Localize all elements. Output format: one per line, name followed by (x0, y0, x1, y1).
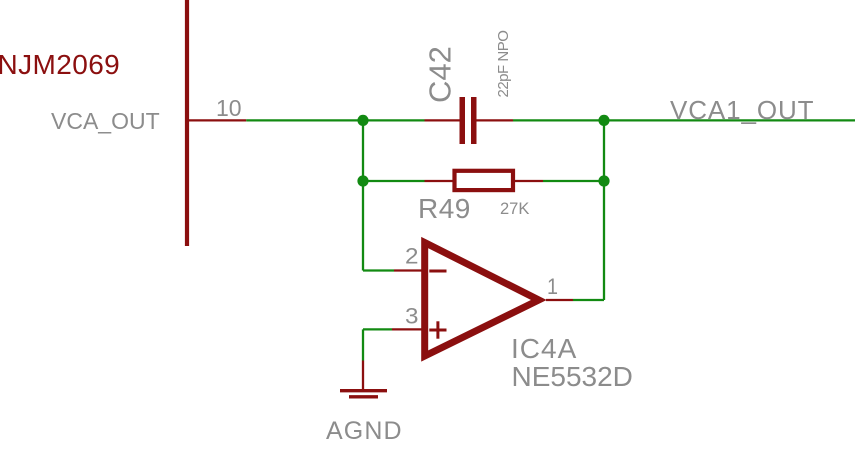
svg-text:27K: 27K (500, 200, 529, 218)
wire: pin 3 down to ground (362, 329, 364, 360)
svg-text:1: 1 (547, 274, 558, 299)
svg-text:R49: R49 (418, 193, 471, 224)
pin 1 output lead (red) (546, 299, 573, 301)
op-amp plus marker vertical (436, 321, 439, 338)
pin 10 lead (red) (187, 119, 246, 121)
svg-text:NE5532D: NE5532D (512, 361, 633, 392)
capacitor C42 right lead (477, 119, 514, 121)
svg-text:NJM2069: NJM2069 (0, 49, 120, 80)
op-amp non-inverting input marker (plus) horizontal (429, 329, 446, 332)
capacitor C42 left lead (425, 119, 460, 121)
capacitor C42 plate 2 (471, 97, 477, 144)
resistor R49 body (455, 171, 514, 190)
pin 3 lead (red) (392, 328, 422, 330)
svg-text:IC4A: IC4A (511, 333, 577, 364)
svg-text:VCA1_OUT: VCA1_OUT (670, 95, 814, 125)
IC NJM2069 symbol edge (185, 0, 189, 246)
wire: pin10 to cap left (246, 119, 424, 121)
wire: cap right to VCA1_OUT net right edge (513, 119, 855, 121)
wire: op-amp output to node B (573, 299, 604, 301)
svg-text:10: 10 (216, 95, 242, 121)
wire: node A to resistor left (363, 180, 425, 182)
svg-text:C42: C42 (423, 46, 458, 103)
ground lead (red vertical) (362, 361, 364, 390)
op-amp inverting input marker (minus) (429, 270, 446, 273)
ground AGND bar 1 (340, 389, 387, 392)
junction dot node B top (598, 115, 609, 126)
wire: resistor right to node B (543, 180, 604, 182)
resistor R49 left lead (425, 180, 453, 182)
junction dot node A resistor (357, 175, 368, 186)
svg-text:3: 3 (405, 304, 419, 329)
wire: pin 2 horizontal (363, 269, 394, 271)
wire: left vertical node A down to pin 2 (362, 120, 364, 270)
ground AGND bar 2 (349, 395, 378, 398)
svg-text:22pF NPO: 22pF NPO (495, 31, 512, 98)
wire: pin 3 horizontal (363, 328, 392, 330)
pin 2 lead (red) (394, 269, 422, 271)
capacitor C42 plate 1 (460, 97, 466, 144)
svg-text:2: 2 (405, 244, 419, 269)
junction dot node A top (357, 115, 368, 126)
wire: right vertical node B down to op-amp output (603, 120, 605, 300)
junction dot node B resistor (598, 175, 609, 186)
svg-text:VCA_OUT: VCA_OUT (51, 108, 160, 134)
op-amp IC4A triangle (425, 243, 539, 357)
svg-text:AGND: AGND (326, 417, 403, 445)
resistor R49 right lead (515, 180, 543, 182)
